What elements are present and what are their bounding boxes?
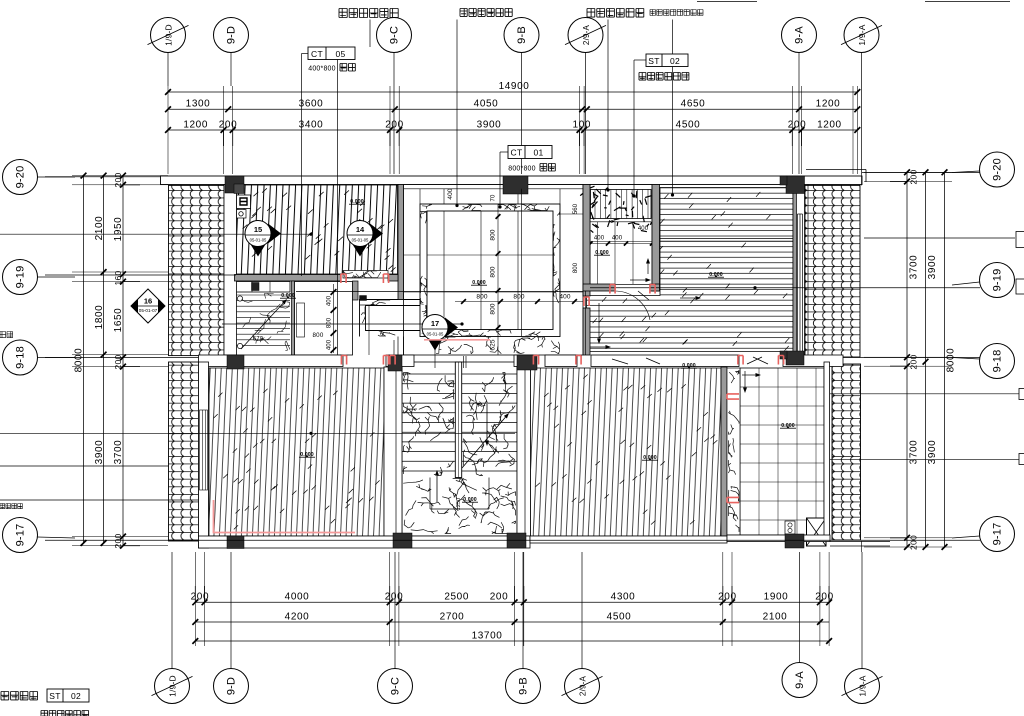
svg-text:400: 400 xyxy=(594,236,605,242)
svg-text:400: 400 xyxy=(559,294,570,301)
svg-text:160: 160 xyxy=(113,270,123,285)
axis bubble bottom 9-B xyxy=(522,552,524,668)
wall under top-left room xyxy=(235,275,342,282)
svg-text:200: 200 xyxy=(909,354,919,369)
leader line y466 xyxy=(0,465,169,467)
axis 9-18 line left xyxy=(45,357,199,359)
svg-text:05-01-05: 05-01-05 xyxy=(427,332,444,337)
svg-text:9-17: 9-17 xyxy=(15,524,27,547)
svg-text:800: 800 xyxy=(476,294,487,301)
axis bubble left 9-18 xyxy=(38,357,76,359)
roof tile strip right upper xyxy=(805,185,860,357)
axis bubble top 9-B xyxy=(521,53,523,175)
bedroom beam line xyxy=(660,238,793,240)
hall threshold tile line xyxy=(404,188,584,190)
column stair bottom-right xyxy=(507,533,526,548)
svg-text:200: 200 xyxy=(490,592,509,603)
right edge small boxes xyxy=(1016,232,1024,248)
svg-text:800: 800 xyxy=(327,317,333,328)
axis bubble bottom 9-A xyxy=(799,552,801,662)
axis bubble top 2/9-A xyxy=(585,53,587,175)
label black-white marble top2 xyxy=(587,9,644,18)
hall vertical dim chain xyxy=(497,204,499,355)
label leader blackwhite marble top xyxy=(607,20,609,191)
top dimension stubs below xyxy=(223,130,225,146)
column tiled room bottom xyxy=(785,534,804,548)
label black-white marble top1 xyxy=(339,9,398,18)
bathroom arrows xyxy=(647,264,649,275)
svg-text:4650: 4650 xyxy=(681,99,706,110)
svg-text:CT: CT xyxy=(311,49,323,59)
marker17 leader down xyxy=(434,340,436,368)
bedroom corridor arrows xyxy=(598,303,600,339)
red door jamb marks xyxy=(341,274,346,283)
svg-text:9-17: 9-17 xyxy=(992,523,1004,546)
svg-text:9-B: 9-B xyxy=(516,26,528,44)
label CT05 box xyxy=(308,47,355,60)
bottom dimension stubs above xyxy=(194,586,196,602)
svg-text:9-20: 9-20 xyxy=(15,166,27,189)
vertical axis segments xyxy=(521,189,523,337)
svg-text:9-19: 9-19 xyxy=(15,266,27,289)
svg-text:3900: 3900 xyxy=(94,440,105,465)
svg-text:01: 01 xyxy=(533,148,543,158)
staircase arrows xyxy=(486,404,488,441)
svg-text:200: 200 xyxy=(219,120,238,131)
label top edge line segments xyxy=(697,1,757,3)
top-right roof edge xyxy=(806,169,866,171)
leader line y234 xyxy=(0,233,311,235)
svg-text:400: 400 xyxy=(327,339,333,350)
svg-text:8000: 8000 xyxy=(74,348,85,373)
bottom dimension row overall 13700 xyxy=(195,640,829,642)
svg-text:9-C: 9-C xyxy=(389,26,401,44)
top dimension row overall 14900 xyxy=(168,91,857,93)
label leader CT05 xyxy=(302,53,309,55)
svg-text:400*800: 400*800 xyxy=(308,66,335,73)
svg-text:200: 200 xyxy=(718,592,737,603)
tiled room arrows xyxy=(744,371,746,388)
label gray marble groove top xyxy=(650,10,703,16)
right dimension mid column xyxy=(925,172,927,547)
column bedroom bottom-right xyxy=(786,351,804,365)
right extension lines xyxy=(864,171,952,173)
door swing marks middle wall xyxy=(753,357,768,364)
svg-text:670: 670 xyxy=(253,337,264,343)
hall marble border band inner xyxy=(427,211,553,330)
svg-text:15: 15 xyxy=(254,225,262,234)
axis bubble top 1/9-A xyxy=(861,53,863,175)
leader line y433 xyxy=(0,432,515,434)
label CT01 box xyxy=(508,146,552,159)
svg-text:1200: 1200 xyxy=(816,99,841,110)
svg-text:400: 400 xyxy=(447,188,454,199)
svg-text:2700: 2700 xyxy=(440,611,465,622)
svg-text:05-01-05: 05-01-05 xyxy=(352,238,369,243)
left dimension outer 8000 xyxy=(83,176,85,543)
staircase marble veins xyxy=(404,373,516,534)
bathroom right stub wall xyxy=(353,281,359,300)
svg-text:05-01-07: 05-01-07 xyxy=(139,308,158,313)
column bottom-left xyxy=(227,536,244,549)
svg-text:ST: ST xyxy=(49,691,60,701)
svg-text:200: 200 xyxy=(788,120,807,131)
left wall of top-left room xyxy=(224,185,237,356)
svg-text:200: 200 xyxy=(191,592,210,603)
middle bathroom xyxy=(295,282,353,356)
svg-text:3600: 3600 xyxy=(299,99,324,110)
svg-text:3400: 3400 xyxy=(299,120,324,131)
axis bubble left 9-20 xyxy=(38,176,76,178)
svg-text:200: 200 xyxy=(385,592,404,603)
axis 9-17 line xyxy=(45,539,980,541)
closet-bathroom divider wall xyxy=(292,281,295,355)
svg-text:4500: 4500 xyxy=(607,611,632,622)
roof tile strip right lower xyxy=(832,364,861,540)
top-left closet with shelves xyxy=(235,282,291,293)
svg-text:3900: 3900 xyxy=(927,255,938,280)
staircase room marble floor xyxy=(402,362,517,536)
label ST02 subtitle xyxy=(639,73,689,81)
axis bubble left 9-17 xyxy=(38,537,76,538)
bedroom outer edge lines xyxy=(804,185,806,365)
svg-text:70: 70 xyxy=(491,194,497,201)
corridor leader line y291 xyxy=(296,291,583,293)
left dimension stubs xyxy=(123,184,140,186)
axis bubble top 9-A xyxy=(798,53,800,175)
svg-text:400: 400 xyxy=(638,226,649,232)
left extension lines xyxy=(72,175,168,177)
hall horizontal dim chain xyxy=(455,301,583,303)
right dimension inner column xyxy=(906,172,908,547)
hall right wall lower xyxy=(583,308,590,355)
column hall top xyxy=(503,176,528,194)
column mid-left xyxy=(227,355,244,369)
svg-text:05: 05 xyxy=(335,49,345,59)
top outer wall xyxy=(161,176,863,185)
shower area hatch xyxy=(591,190,652,219)
svg-text:1250: 1250 xyxy=(456,498,462,511)
bottom-right room right wall xyxy=(721,367,727,536)
svg-text:1650: 1650 xyxy=(113,308,124,333)
axis bubble top 9-D xyxy=(230,53,232,87)
middle dividing wall xyxy=(199,355,344,367)
svg-text:800: 800 xyxy=(490,229,497,240)
axis bubble left 9-19 xyxy=(38,276,76,278)
label bottom-left note xyxy=(1,692,38,700)
column top-left xyxy=(225,176,244,193)
right leader y238 xyxy=(864,237,1015,239)
red finish polyline bottom-left room xyxy=(214,500,356,533)
elevation marker diamond 16 xyxy=(131,289,165,323)
svg-text:1300: 1300 xyxy=(186,99,211,110)
elevation marker 14 xyxy=(370,224,383,244)
bathroom tile grid xyxy=(597,222,599,284)
svg-text:4500: 4500 xyxy=(676,120,701,131)
label leader ST02 top xyxy=(634,59,646,61)
column bedroom top-right xyxy=(786,176,805,194)
svg-text:16: 16 xyxy=(144,297,152,306)
bottom dimension extension lines xyxy=(194,552,196,646)
svg-text:1200: 1200 xyxy=(817,120,842,131)
svg-text:9-20: 9-20 xyxy=(992,158,1004,181)
svg-text:8000: 8000 xyxy=(946,348,957,373)
svg-text:14900: 14900 xyxy=(499,81,530,92)
bathroom dims xyxy=(591,243,653,245)
label leader graymarble groove xyxy=(672,20,674,196)
svg-text:02: 02 xyxy=(71,691,81,701)
hall band veins xyxy=(360,205,560,337)
axis bubble right 9-18 xyxy=(952,358,980,360)
right dimension outer 8000 xyxy=(944,172,946,547)
marble counter at bathroom door xyxy=(343,271,388,279)
right dimension stubs xyxy=(890,181,907,183)
bedroom right wall xyxy=(793,185,797,353)
axis bubble right 9-20 xyxy=(952,171,980,173)
left dimension mid column xyxy=(103,176,105,543)
label left margin groove xyxy=(0,332,13,338)
small fixture in tiled room xyxy=(785,521,795,534)
corridor threshold veins xyxy=(436,337,559,354)
column stair top-right xyxy=(517,355,537,370)
axis bubble right 9-17 xyxy=(952,536,980,538)
svg-text:9-D: 9-D xyxy=(226,677,238,695)
hall inner tile grid xyxy=(443,211,445,330)
axis bubble bottom 9-D xyxy=(230,552,232,668)
svg-text:3700: 3700 xyxy=(909,255,920,280)
svg-text:400: 400 xyxy=(327,295,333,306)
svg-text:9-B: 9-B xyxy=(518,677,530,695)
svg-text:200: 200 xyxy=(909,535,919,550)
svg-text:4300: 4300 xyxy=(611,592,636,603)
bedroom window mullions xyxy=(797,214,799,351)
band corner block xyxy=(360,296,367,301)
svg-text:560: 560 xyxy=(573,203,579,214)
svg-text:800: 800 xyxy=(513,294,524,301)
svg-text:200: 200 xyxy=(385,120,404,131)
top dimension row detail xyxy=(168,129,857,131)
column stair top-left xyxy=(388,355,402,371)
svg-text:1900: 1900 xyxy=(764,592,789,603)
leader line y324 xyxy=(222,323,462,325)
svg-text:800: 800 xyxy=(573,262,579,273)
svg-text:200: 200 xyxy=(113,354,123,369)
svg-text:9-D: 9-D xyxy=(226,26,238,44)
axis bubble top 1/9-D xyxy=(167,53,169,87)
stair note leader xyxy=(0,499,199,501)
bathroom door swing xyxy=(615,291,650,320)
bottom dimension row detail xyxy=(195,601,829,603)
svg-text:4050: 4050 xyxy=(474,99,499,110)
axis bubble top 9-C xyxy=(393,53,395,175)
svg-text:9-A: 9-A xyxy=(794,26,806,44)
axis bubble bottom 1/9-D xyxy=(171,552,173,668)
svg-text:3900: 3900 xyxy=(927,440,938,465)
svg-text:800*800: 800*800 xyxy=(508,166,535,173)
svg-text:1200: 1200 xyxy=(183,120,208,131)
label ST02 box bottom xyxy=(47,689,89,702)
svg-text:1800: 1800 xyxy=(94,305,105,330)
bottom dimension row mid xyxy=(195,621,829,623)
svg-text:200: 200 xyxy=(815,592,834,603)
svg-text:200: 200 xyxy=(113,172,123,187)
column stair bottom-left xyxy=(393,533,412,548)
svg-text:2500: 2500 xyxy=(444,592,469,603)
marble passage strip xyxy=(727,368,740,535)
staircase centre handrail xyxy=(455,362,461,478)
svg-text:14: 14 xyxy=(356,225,365,234)
svg-text:9-C: 9-C xyxy=(390,677,402,695)
svg-text:800: 800 xyxy=(490,303,497,314)
top bathroom bottom wall xyxy=(583,284,615,291)
right leader y394 xyxy=(830,393,1020,395)
svg-text:3700: 3700 xyxy=(113,440,124,465)
bottom walls xyxy=(199,536,399,548)
wall between bottom-left room and stair xyxy=(384,367,402,536)
svg-text:625: 625 xyxy=(490,339,497,350)
svg-text:1950: 1950 xyxy=(113,217,124,242)
roof tile strip left lower xyxy=(169,362,199,541)
svg-text:4200: 4200 xyxy=(285,611,310,622)
axis bubble right 9-19 xyxy=(952,282,980,285)
hall right wall upper xyxy=(583,185,590,297)
bottom-left room window xyxy=(200,410,208,490)
elevation marker 17 xyxy=(445,318,458,338)
left dimension inner column xyxy=(122,176,124,546)
label bottom marble name xyxy=(41,711,89,716)
axis 9-20 line right xyxy=(862,172,980,174)
label leader CT01 xyxy=(500,151,508,153)
label leader wave line xyxy=(456,20,458,206)
top-left utility fixture xyxy=(237,195,251,209)
svg-text:9-19: 9-19 xyxy=(992,269,1004,292)
svg-text:ST: ST xyxy=(648,56,659,66)
wall between stair and bottom-right room xyxy=(517,367,531,536)
svg-text:4000: 4000 xyxy=(285,592,310,603)
hall border band corridor arm xyxy=(360,300,421,337)
svg-text:2100: 2100 xyxy=(763,611,788,622)
elevation marker 15 xyxy=(268,224,281,244)
tiled room right wall xyxy=(824,362,830,541)
axis bubble bottom 1/9-A xyxy=(861,552,863,668)
label leader first marble xyxy=(369,20,371,48)
svg-text:05-01-05: 05-01-05 xyxy=(250,238,267,243)
central hall floor xyxy=(404,185,584,356)
top-left wood floor room xyxy=(237,185,398,274)
staircase landing lines xyxy=(429,478,431,510)
axis 9-18 line right xyxy=(843,357,980,359)
axis 9-19 line right xyxy=(590,287,980,289)
top bathroom floor xyxy=(590,185,652,285)
top dimension extension lines xyxy=(167,86,169,174)
label ST02 box top xyxy=(646,54,688,67)
label left margin stair steps xyxy=(0,504,22,509)
label wave border line top xyxy=(460,9,512,17)
svg-text:2100: 2100 xyxy=(94,216,105,241)
svg-text:800: 800 xyxy=(313,332,324,339)
svg-text:400: 400 xyxy=(612,236,623,242)
svg-text:800: 800 xyxy=(490,266,497,277)
svg-text:3900: 3900 xyxy=(477,120,502,131)
top bathroom right wall xyxy=(652,185,660,292)
axis 9-19 line left xyxy=(45,274,236,276)
svg-text:9-A: 9-A xyxy=(794,671,806,689)
svg-text:9-18: 9-18 xyxy=(992,350,1004,373)
svg-text:100: 100 xyxy=(573,120,592,131)
svg-text:9-18: 9-18 xyxy=(15,346,27,369)
bottom-left room left wall xyxy=(199,362,209,548)
svg-text:17: 17 xyxy=(431,319,439,328)
right leader y460 xyxy=(830,459,1020,461)
elevator shaft with X cross xyxy=(807,518,827,546)
wall between top-left room and hall xyxy=(398,185,404,300)
axis 9-20 line left xyxy=(45,176,161,178)
svg-text:200: 200 xyxy=(909,169,919,184)
axis bubble bottom 9-C xyxy=(394,552,396,668)
staircase up-direction break line xyxy=(462,417,505,468)
top dimension row main xyxy=(168,108,857,110)
svg-text:13700: 13700 xyxy=(472,630,503,641)
axis bubble bottom 2/9-A xyxy=(581,552,583,668)
hall marble border band outer xyxy=(420,204,560,337)
roof tile strip left upper xyxy=(169,185,225,355)
bottom-right tiled room grid xyxy=(740,368,824,535)
red finish line hall bottom xyxy=(424,339,490,341)
svg-text:3700: 3700 xyxy=(909,440,920,465)
svg-text:02: 02 xyxy=(670,56,680,66)
svg-text:CT: CT xyxy=(511,148,523,158)
svg-text:200: 200 xyxy=(113,533,123,548)
